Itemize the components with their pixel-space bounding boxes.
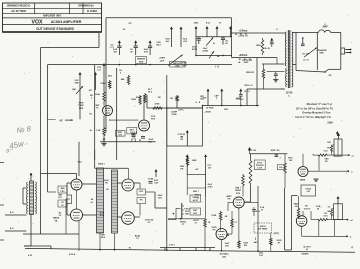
wire secondary inner bbox=[316, 33, 318, 71]
svg-text:B: B bbox=[199, 102, 201, 104]
svg-text:.05: .05 bbox=[180, 137, 184, 139]
wire staircase from title block bbox=[41, 33, 99, 48]
svg-text:6.3V C: 6.3V C bbox=[169, 245, 175, 247]
svg-text:P16: P16 bbox=[259, 255, 263, 257]
svg-text:2: 2 bbox=[350, 237, 352, 239]
svg-text:C7: C7 bbox=[195, 223, 198, 225]
wire selector to bus bbox=[66, 199, 70, 234]
label left edge marks bbox=[0, 205, 4, 240]
label cluster b1 bbox=[110, 45, 114, 50]
label near pots bbox=[213, 42, 220, 58]
svg-text:Cut to 1″ Ov″es 1/8ay/ag½ Ym: Cut to 1″ Ov″es 1/8ay/ag½ Ym bbox=[295, 115, 331, 119]
svg-text:AC30/4 AMPLIFIER: AC30/4 AMPLIFIER bbox=[51, 20, 82, 24]
svg-text:1M: 1M bbox=[305, 206, 308, 208]
svg-text:V6B 7: V6B 7 bbox=[235, 188, 242, 190]
capacitor C5 32uF bbox=[221, 37, 229, 45]
svg-text:8½: 8½ bbox=[89, 112, 92, 116]
svg-text:50K: 50K bbox=[72, 89, 76, 91]
label trem top bbox=[248, 150, 257, 152]
svg-text:ROA: ROA bbox=[100, 214, 105, 217]
label under T1 bbox=[28, 255, 33, 257]
svg-text:TC: TC bbox=[96, 108, 99, 110]
svg-text:6BR8: 6BR8 bbox=[300, 180, 306, 182]
label under bus left bbox=[69, 253, 76, 256]
svg-text:+PK2: +PK2 bbox=[207, 187, 213, 189]
connection arrow mid bbox=[186, 130, 189, 195]
wire lower verticals bbox=[79, 142, 128, 179]
label mid rail bbox=[235, 34, 247, 36]
svg-text:1M: 1M bbox=[113, 52, 116, 54]
component cluster right of V5 bbox=[137, 183, 146, 216]
wire long vertical left bus bbox=[40, 48, 42, 235]
svg-text:CAP: CAP bbox=[214, 95, 219, 98]
wire top rail bbox=[106, 17, 232, 19]
svg-text:10000: 10000 bbox=[305, 189, 311, 191]
label skip 80 bbox=[271, 150, 280, 152]
svg-text:2: 2 bbox=[120, 73, 122, 75]
resistor R4 bbox=[121, 75, 130, 85]
svg-text:PK: PK bbox=[140, 200, 143, 202]
svg-text:250V: 250V bbox=[244, 62, 249, 64]
svg-text:40: 40 bbox=[91, 198, 94, 201]
svg-text:1M: 1M bbox=[295, 206, 298, 208]
wire mains leads bbox=[5, 211, 26, 231]
wire left edge of top box bbox=[105, 18, 107, 133]
label between arrows bbox=[156, 42, 161, 47]
svg-text:OC 3Ω: OC 3Ω bbox=[302, 54, 309, 56]
svg-text:100K: 100K bbox=[95, 94, 100, 96]
svg-text:PK2: PK2 bbox=[61, 191, 66, 193]
svg-text:C7: C7 bbox=[261, 210, 264, 212]
svg-text:COMP: COMP bbox=[171, 112, 178, 114]
label rod100 box bbox=[277, 165, 284, 170]
svg-text:ZBR: ZBR bbox=[60, 188, 65, 190]
svg-text:4 R2: 4 R2 bbox=[259, 252, 264, 255]
svg-text:THAT: THAT bbox=[78, 104, 84, 107]
svg-text:COP 45: COP 45 bbox=[178, 133, 186, 136]
svg-text:3K 2: 3K 2 bbox=[148, 92, 153, 94]
svg-text:97B: 97B bbox=[327, 142, 331, 144]
svg-text:(C.?): (C.?) bbox=[304, 60, 309, 62]
wire preamp box left edge bbox=[48, 65, 57, 192]
label preamp misc bbox=[97, 67, 102, 72]
wire to mid vertical bbox=[146, 192, 167, 208]
wire blocks bottom bbox=[100, 233, 115, 251]
svg-text:4.7: 4.7 bbox=[148, 221, 152, 224]
fuse F1 bbox=[318, 24, 330, 33]
svg-text:100: 100 bbox=[289, 160, 293, 162]
label near divider bbox=[104, 179, 109, 185]
wire V6 leads bbox=[228, 202, 258, 248]
svg-text:JA5: JA5 bbox=[222, 255, 227, 258]
svg-text:+25: +25 bbox=[306, 191, 310, 193]
potentiometer P3 bbox=[209, 51, 214, 58]
label COP bbox=[178, 109, 229, 114]
wire trem rail feed bbox=[248, 147, 251, 154]
triode V5a bbox=[122, 179, 134, 191]
wire T1 bottom lead bbox=[24, 215, 31, 247]
wire bottom double segment bbox=[160, 248, 215, 251]
svg-text:6.3V: 6.3V bbox=[28, 255, 33, 257]
label 25uF lower bbox=[158, 195, 164, 200]
resistor R1 grid bbox=[101, 80, 111, 89]
svg-text:SPEAKER: SPEAKER bbox=[316, 49, 327, 52]
label 25uF V2 bbox=[149, 139, 155, 144]
svg-text:20K: 20K bbox=[224, 109, 228, 111]
svg-text:470: 470 bbox=[244, 244, 248, 247]
svg-text:220K: 220K bbox=[101, 83, 106, 85]
resistor R6 plate bbox=[131, 95, 141, 105]
svg-text:⏚ A: ⏚ A bbox=[214, 65, 219, 69]
svg-text:SP: SP bbox=[329, 75, 332, 77]
svg-text:OP: OP bbox=[129, 23, 133, 25]
svg-text:PK: PK bbox=[181, 169, 184, 171]
pot labels box bbox=[254, 160, 265, 170]
svg-text:STIR: STIR bbox=[79, 103, 84, 105]
svg-text:130: 130 bbox=[208, 168, 212, 170]
ground heater bbox=[214, 65, 219, 69]
svg-text:OC84: OC84 bbox=[148, 178, 154, 181]
svg-text:C7: C7 bbox=[235, 222, 238, 224]
svg-text:HT2: HT2 bbox=[139, 191, 144, 193]
wire right mid verticals bbox=[257, 186, 259, 251]
svg-text:PIL: PIL bbox=[325, 161, 329, 163]
svg-text:4L3: 4L3 bbox=[166, 40, 170, 43]
label method gnd box bbox=[170, 61, 185, 67]
svg-text:SC: SC bbox=[123, 29, 126, 31]
svg-text:PK2: PK2 bbox=[151, 119, 156, 121]
potentiometer P2 bbox=[206, 37, 213, 45]
svg-text:-2UF: -2UF bbox=[159, 60, 165, 62]
svg-text:32+32: 32+32 bbox=[264, 48, 271, 50]
svg-text:+100ma: +100ma bbox=[239, 31, 248, 33]
svg-text:GND: GND bbox=[182, 65, 187, 67]
resistor R12 between bbox=[67, 195, 72, 204]
handwritten pencil note 2 bbox=[5, 138, 29, 155]
label near C13 bbox=[260, 206, 265, 212]
svg-text:40uF: 40uF bbox=[104, 179, 109, 182]
junction dots mid bbox=[166, 105, 258, 161]
arrow pair mid2 bbox=[187, 154, 213, 197]
wire secondary right side bbox=[331, 33, 341, 70]
label near V6b bbox=[212, 227, 217, 232]
label under bus right bbox=[302, 245, 354, 256]
svg-text:OOR OD: OOR OD bbox=[145, 220, 154, 222]
label tone stack bbox=[78, 103, 84, 110]
svg-text:+200mA: +200mA bbox=[239, 54, 248, 57]
svg-text:1M: 1M bbox=[170, 98, 173, 100]
svg-text:ONE: ONE bbox=[74, 83, 79, 85]
jack output J2 bbox=[168, 203, 205, 226]
svg-text:WD6 R2: WD6 R2 bbox=[246, 72, 255, 74]
svg-text:4A2: 4A2 bbox=[254, 241, 259, 244]
svg-text:MR08: MR08 bbox=[53, 218, 60, 220]
potentiometer hum balance bbox=[168, 55, 187, 67]
svg-text:1K: 1K bbox=[208, 222, 211, 224]
svg-text:6.3V A: 6.3V A bbox=[69, 253, 76, 256]
wire V2 grid bbox=[110, 119, 139, 120]
svg-text:C2: C2 bbox=[245, 34, 247, 36]
svg-text:PK: PK bbox=[228, 199, 231, 201]
svg-text:12716: 12716 bbox=[286, 92, 293, 95]
svg-text:MB: MB bbox=[185, 214, 189, 216]
capacitor C2 16uF bbox=[130, 40, 138, 55]
svg-text:25V: 25V bbox=[225, 246, 229, 248]
svg-text:PRE: PRE bbox=[79, 108, 84, 110]
label adj bbox=[193, 190, 200, 225]
wire secondary return bbox=[296, 33, 325, 73]
junction dots top bbox=[119, 55, 224, 66]
svg-text:MAINS: MAINS bbox=[302, 253, 309, 256]
wire V1 plate link bbox=[103, 103, 105, 127]
capacitor C9 coupling bbox=[131, 131, 136, 140]
svg-text:AC: AC bbox=[196, 168, 199, 171]
svg-text:C7: C7 bbox=[136, 238, 139, 240]
capacitor C12 trem bbox=[275, 154, 282, 160]
svg-text:2: 2 bbox=[351, 171, 353, 173]
connection arrow AF2 bbox=[214, 89, 223, 106]
divider block 1 bbox=[90, 168, 103, 233]
svg-text:PK2: PK2 bbox=[236, 193, 241, 195]
svg-text:6K: 6K bbox=[225, 216, 228, 218]
svg-text:HEATER: HEATER bbox=[137, 58, 146, 61]
volume pot VR1 bbox=[72, 72, 83, 119]
svg-text:+HUM: +HUM bbox=[205, 112, 211, 114]
capacitor C3 16uF 475V bbox=[143, 40, 152, 55]
svg-text:R2: R2 bbox=[240, 34, 242, 36]
svg-text:100K: 100K bbox=[192, 160, 197, 162]
power connection arrow A4 bbox=[229, 26, 232, 37]
power connection arrow A5 bbox=[165, 27, 173, 48]
svg-text:x2: x2 bbox=[350, 220, 353, 222]
transformer T2 output bbox=[281, 30, 296, 97]
wire top box inner rail 2 bbox=[196, 54, 232, 56]
label V2 area bbox=[151, 116, 156, 121]
label near R14 bbox=[288, 158, 293, 163]
resistor R15 plate bbox=[242, 174, 245, 197]
svg-text:OC4: OC4 bbox=[324, 215, 329, 218]
dashed box vibrato bbox=[254, 223, 282, 251]
label mid rail2 bbox=[239, 59, 251, 61]
wire coupling line bbox=[100, 138, 156, 141]
svg-text:M: M bbox=[306, 249, 308, 251]
wire right edge of top box bbox=[231, 18, 233, 58]
svg-text:25: 25 bbox=[197, 197, 200, 199]
capacitor C4 16uF bbox=[192, 37, 201, 51]
svg-text:8+: 8+ bbox=[90, 130, 93, 132]
svg-text:L/CR: L/CR bbox=[257, 168, 262, 170]
label near V6 bbox=[226, 196, 232, 201]
wire OT centre tap bbox=[262, 64, 285, 72]
wire long vertical mid bbox=[166, 75, 168, 251]
box label WKT275 bbox=[115, 131, 125, 137]
resistor R20 bbox=[231, 211, 238, 234]
triode V7b bbox=[294, 204, 307, 227]
wire V7b to bottom bbox=[302, 226, 315, 236]
svg-text:2: 2 bbox=[91, 98, 93, 100]
svg-text:AC 30 TWIN: AC 30 TWIN bbox=[11, 9, 26, 13]
svg-text:PGM: PGM bbox=[209, 108, 214, 110]
svg-text:AOJT: AOJT bbox=[193, 219, 199, 222]
svg-text:OC: OC bbox=[328, 207, 331, 209]
label cluster box1a bbox=[123, 23, 133, 31]
svg-text:12AX7: 12AX7 bbox=[235, 189, 242, 192]
wire top box inner left leg bbox=[195, 37, 197, 56]
svg-text:2×: 2× bbox=[213, 42, 216, 45]
capacitor C8 to ground bbox=[301, 37, 305, 45]
svg-text:68K: 68K bbox=[121, 79, 125, 81]
title block bbox=[3, 3, 102, 32]
svg-text:ORD: ORD bbox=[319, 52, 324, 54]
svg-text:b: b bbox=[288, 95, 290, 97]
capacitor C1 0.05uF bbox=[113, 40, 122, 55]
label 3002pk bbox=[180, 166, 185, 171]
wire AF stub bbox=[48, 118, 56, 120]
label preamp misc3 bbox=[108, 76, 113, 78]
svg-text:45: 45 bbox=[106, 188, 109, 191]
wire B+ rail to output transformer bbox=[232, 32, 282, 34]
svg-text:+GER: +GER bbox=[159, 58, 165, 60]
svg-text:475V: 475V bbox=[192, 48, 198, 51]
resistor R19 bbox=[186, 156, 197, 166]
svg-text:GND: GND bbox=[175, 65, 180, 67]
label selector taps bbox=[58, 195, 63, 218]
box tremolo bbox=[167, 108, 203, 146]
svg-text:Mounted ½″ Law ½ yr: Mounted ½″ Law ½ yr bbox=[307, 102, 333, 106]
svg-text:CUT DEVICE STANDARD: CUT DEVICE STANDARD bbox=[36, 27, 75, 31]
svg-text:LF2: LF2 bbox=[58, 197, 62, 199]
svg-text:SKIP .80: SKIP .80 bbox=[271, 150, 280, 152]
wire mid column bbox=[285, 188, 298, 250]
connection arrow in box bbox=[180, 137, 184, 142]
wire heater rail bbox=[48, 64, 233, 66]
svg-text:AF: AF bbox=[103, 138, 107, 141]
svg-text:4: 4 bbox=[195, 101, 197, 104]
svg-text:COP: COP bbox=[202, 98, 207, 100]
svg-text:470K: 470K bbox=[155, 103, 160, 106]
notes text block bbox=[295, 102, 333, 125]
resistor R9 bbox=[170, 95, 178, 108]
resistor R14 bbox=[284, 154, 287, 188]
connection arrow AF3 bbox=[236, 89, 250, 106]
triode V1a bbox=[103, 106, 113, 116]
resistor R16 100K bbox=[211, 211, 221, 231]
svg-text:R1: R1 bbox=[239, 59, 241, 61]
wire preamp vert 1 bbox=[94, 65, 96, 160]
resistor R5 bbox=[136, 93, 146, 103]
wire V2 plate up bbox=[144, 95, 147, 120]
svg-text:1M: 1M bbox=[89, 90, 92, 92]
svg-text:0.1: 0.1 bbox=[133, 138, 137, 140]
svg-text:1.5K: 1.5K bbox=[96, 130, 101, 132]
svg-text:OL3: OL3 bbox=[183, 41, 188, 43]
transformer T1 mains bbox=[23, 173, 60, 222]
wire mains lower run bbox=[24, 246, 51, 249]
svg-text:WD6: WD6 bbox=[256, 45, 261, 47]
svg-text:+2: +2 bbox=[351, 155, 354, 157]
svg-text:TC: TC bbox=[219, 23, 222, 25]
svg-text:Overlay Mounted ½″hm: Overlay Mounted ½″hm bbox=[302, 111, 331, 115]
capacitor C6 smoothing bbox=[273, 72, 278, 82]
ground V1 cathode bbox=[101, 137, 106, 146]
capacitor C7 reservoir bbox=[264, 38, 274, 50]
label speaker bbox=[316, 49, 327, 55]
wire selector top rail bbox=[41, 174, 77, 180]
wire B+ dropper vertical bbox=[256, 58, 258, 106]
svg-text:100K: 100K bbox=[211, 215, 216, 217]
wire V7 tops bbox=[303, 154, 311, 251]
svg-text:MC2: MC2 bbox=[108, 76, 113, 78]
svg-text:2: 2 bbox=[216, 98, 218, 100]
svg-text:B 10362: B 10362 bbox=[87, 9, 97, 13]
svg-text:7.5K: 7.5K bbox=[154, 183, 159, 185]
label near R5 bbox=[148, 89, 153, 94]
wire V3 V4 links bbox=[67, 183, 97, 251]
svg-text:PK: PK bbox=[105, 183, 108, 185]
triode V7a bbox=[298, 167, 308, 182]
label comp bbox=[171, 112, 178, 117]
power connection arrow A6 bbox=[180, 27, 189, 48]
svg-text:+HUM: +HUM bbox=[202, 51, 208, 53]
svg-text:100: 100 bbox=[279, 167, 283, 169]
label near R16 bbox=[225, 216, 228, 218]
resistor R18 bbox=[297, 196, 310, 219]
svg-text:+B: +B bbox=[238, 62, 241, 64]
resistor R10 dropper bbox=[256, 38, 264, 55]
wire transformer bottom run bbox=[23, 233, 79, 235]
label +100mA rail bbox=[238, 31, 248, 38]
ground V7 bbox=[313, 179, 318, 181]
svg-text:0.1: 0.1 bbox=[134, 132, 138, 134]
svg-text:475: 475 bbox=[144, 51, 148, 54]
label +200mA rail bbox=[239, 54, 253, 62]
label preamp misc2 bbox=[119, 70, 122, 75]
arrow near text block bbox=[336, 131, 339, 136]
svg-text:R3: R3 bbox=[249, 59, 251, 61]
svg-text:(MT2): (MT2) bbox=[274, 233, 280, 235]
svg-text:OC4: OC4 bbox=[324, 150, 329, 153]
svg-text:BIAS 7: BIAS 7 bbox=[98, 163, 105, 166]
capacitor box C14 bbox=[301, 185, 316, 196]
svg-text:AL794(L): AL794(L) bbox=[220, 253, 229, 256]
output block 1 vib pedal bbox=[308, 133, 355, 173]
label OC44 bbox=[100, 213, 154, 241]
power connection arrow A3 bbox=[216, 26, 219, 37]
label V6 dense bbox=[235, 188, 242, 196]
connection arrow AF1 bbox=[200, 89, 210, 106]
wire secondary top bbox=[296, 32, 318, 34]
label ot top bbox=[276, 29, 278, 31]
wire trem top rail bbox=[250, 153, 288, 155]
junction dots bot bbox=[99, 249, 259, 252]
svg-text:COP +: COP + bbox=[178, 110, 185, 112]
capacitor C10 bbox=[139, 137, 145, 143]
svg-text:1M: 1M bbox=[158, 97, 161, 99]
svg-text:R2: R2 bbox=[180, 139, 184, 141]
svg-text:VOX: VOX bbox=[32, 19, 43, 25]
label bus small bbox=[129, 245, 176, 250]
svg-text:20: 20 bbox=[317, 209, 320, 211]
svg-text:R 2.2: R 2.2 bbox=[245, 91, 251, 93]
rectifier V4 bbox=[71, 209, 83, 221]
svg-text:A.C.: A.C. bbox=[10, 227, 15, 230]
svg-text:R2: R2 bbox=[244, 59, 246, 61]
wire V5 links bbox=[118, 183, 141, 217]
triode V6b bbox=[216, 229, 227, 240]
label boxes left of V6 bbox=[190, 195, 201, 215]
rectifier V3 bbox=[71, 179, 82, 190]
wire B+ second rail bbox=[232, 58, 278, 65]
